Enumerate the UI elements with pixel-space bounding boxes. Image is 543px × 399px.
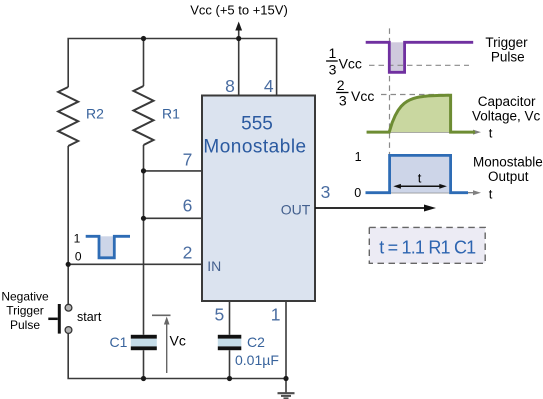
svg-text:t: t xyxy=(489,125,493,140)
svg-text:4: 4 xyxy=(264,76,274,96)
svg-text:1: 1 xyxy=(329,45,337,61)
svg-text:Trigger: Trigger xyxy=(485,35,528,50)
svg-text:1: 1 xyxy=(74,231,81,245)
svg-text:t: t xyxy=(418,171,422,186)
svg-text:5: 5 xyxy=(214,305,224,325)
svg-text:Voltage, Vc: Voltage, Vc xyxy=(472,108,541,123)
svg-text:IN: IN xyxy=(207,258,221,274)
svg-text:C1: C1 xyxy=(110,334,128,350)
svg-text:1: 1 xyxy=(355,150,362,164)
svg-text:Monostable: Monostable xyxy=(473,154,543,169)
svg-text:1: 1 xyxy=(271,305,281,325)
svg-text:Pulse: Pulse xyxy=(491,49,525,64)
svg-text:Negative: Negative xyxy=(1,290,49,304)
svg-text:555: 555 xyxy=(241,114,273,135)
svg-text:8: 8 xyxy=(225,76,235,96)
svg-text:t: t xyxy=(489,186,493,201)
svg-text:OUT: OUT xyxy=(281,202,311,218)
svg-text:t = 1.1 R1 C1: t = 1.1 R1 C1 xyxy=(379,237,476,257)
svg-text:Trigger: Trigger xyxy=(6,304,44,318)
svg-text:Vc: Vc xyxy=(170,333,186,349)
svg-text:2: 2 xyxy=(183,243,193,263)
svg-text:C2: C2 xyxy=(247,334,265,350)
svg-text:R1: R1 xyxy=(162,106,180,122)
svg-text:3: 3 xyxy=(339,93,347,109)
svg-text:Monostable: Monostable xyxy=(203,137,306,158)
svg-text:0.01µF: 0.01µF xyxy=(235,352,279,368)
svg-text:start: start xyxy=(77,310,102,324)
svg-text:Output: Output xyxy=(488,169,529,184)
svg-text:6: 6 xyxy=(183,195,193,215)
svg-text:Pulse: Pulse xyxy=(10,318,40,332)
svg-text:3: 3 xyxy=(321,182,331,202)
svg-text:Vcc: Vcc xyxy=(339,56,362,72)
svg-text:Vcc (+5 to +15V): Vcc (+5 to +15V) xyxy=(190,3,288,18)
svg-text:3: 3 xyxy=(329,61,337,77)
svg-text:Capacitor: Capacitor xyxy=(478,94,536,109)
svg-text:2: 2 xyxy=(337,77,345,93)
svg-text:7: 7 xyxy=(183,149,193,169)
svg-text:0: 0 xyxy=(75,250,82,264)
svg-text:R2: R2 xyxy=(86,106,104,122)
svg-text:Vcc: Vcc xyxy=(351,88,374,104)
svg-text:0: 0 xyxy=(354,186,361,200)
